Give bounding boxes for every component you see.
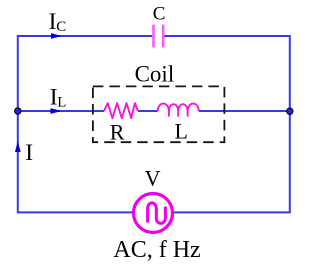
svg-text:C: C (56, 19, 66, 35)
svg-text:R: R (110, 120, 125, 145)
wire top branch left segment (18, 35, 153, 37)
inductor L1 humps (158, 104, 199, 111)
svg-text:L: L (57, 94, 66, 110)
svg-text:L: L (175, 118, 188, 143)
svg-text:AC, f Hz: AC, f Hz (113, 237, 200, 263)
node junction left (15, 108, 21, 114)
capacitor C1 plates (154, 25, 164, 48)
wire left vertical (17, 35, 19, 213)
svg-text:Coil: Coil (135, 62, 175, 87)
node junction right (287, 108, 293, 114)
wire top branch right segment (164, 35, 289, 37)
wire middle branch left segment (18, 110, 104, 112)
wire bottom branch (18, 211, 290, 213)
svg-text:V: V (145, 166, 161, 191)
arrow I on left wire (15, 141, 21, 152)
AC source V circle (134, 194, 173, 233)
arrow I_L on middle branch (51, 108, 62, 114)
svg-text:C: C (153, 3, 166, 24)
dashed coil box (93, 86, 225, 142)
wire middle branch center segment (138, 110, 158, 112)
resistor R1 zigzag (104, 103, 138, 118)
inductor cusp drips (169, 111, 188, 116)
AC source sine squiggle (148, 203, 166, 224)
arrow I_C on top branch (51, 33, 62, 39)
wire middle branch right segment (199, 110, 290, 112)
svg-text:I: I (25, 140, 33, 166)
wire right vertical (289, 35, 291, 213)
